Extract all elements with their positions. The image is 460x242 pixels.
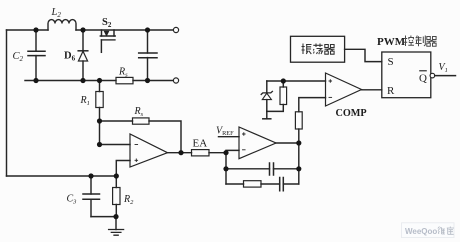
svg-text:R: R <box>387 85 395 97</box>
junction dot C3 top <box>88 173 93 178</box>
oscillator box <box>291 36 345 62</box>
wire EA output vertical <box>298 129 300 184</box>
junction dot R2 top <box>114 173 119 178</box>
junction dot EA minus node <box>223 150 228 155</box>
resistor R2 <box>113 176 120 217</box>
wire top rail right segment <box>76 29 173 31</box>
svg-text:S: S <box>388 56 394 68</box>
capacitor C2 <box>28 30 45 81</box>
capacitor feedback C <box>226 163 299 175</box>
resistor feedback R <box>244 181 262 187</box>
svg-text:Q: Q <box>419 72 427 84</box>
svg-text:D6: D6 <box>64 51 76 63</box>
wire resistor to COMP minus <box>299 98 326 112</box>
svg-text:PWM: PWM <box>377 36 406 48</box>
transistor S2 <box>100 30 115 52</box>
wire RC feedback row <box>226 183 299 185</box>
label PWM controller chinese <box>404 36 437 47</box>
svg-text:L2: L2 <box>51 7 62 19</box>
junction dot D6 top <box>80 27 85 32</box>
inverter bubble Qbar output <box>430 73 435 78</box>
junction dot EA output <box>296 140 301 145</box>
svg-text:R1: R1 <box>80 95 90 107</box>
junction dot R2 bottom <box>113 214 118 219</box>
comparator COMP <box>326 73 362 106</box>
resistor Rs <box>116 77 133 83</box>
wire node to op-amp2 minus input <box>226 150 239 152</box>
junction dot C2 bottom <box>33 78 38 83</box>
svg-text:S2: S2 <box>102 17 112 29</box>
wire C3 bottom <box>91 216 116 218</box>
watermark <box>402 223 455 238</box>
junction dot op-amp1 output <box>178 150 183 155</box>
op-amp U1 <box>130 134 168 167</box>
capacitor feedback C2 <box>280 178 284 191</box>
diode D6 <box>78 30 88 81</box>
svg-text:Rs: Rs <box>134 106 144 118</box>
wire oscillator to S input <box>345 49 382 61</box>
wire bottom power rail right <box>133 80 173 82</box>
terminal output top <box>173 27 178 32</box>
wire op-amp1 output to EA resistor <box>168 152 192 154</box>
svg-text:WeeQoo: WeeQoo <box>405 227 437 236</box>
output capacitor <box>139 30 157 81</box>
junction dot R1 bottom <box>97 118 102 123</box>
wire op-amp2 output <box>276 142 299 144</box>
wire op-amp1 plus input <box>116 161 130 177</box>
junction dot output cap bottom <box>145 78 150 83</box>
junction dot output cap top <box>145 27 150 32</box>
PWM controller box <box>382 52 431 98</box>
wire EA resistor to node <box>209 152 226 154</box>
resistor Rf <box>133 118 150 124</box>
wire COMP output to R input <box>362 89 382 91</box>
svg-text:V1: V1 <box>439 62 448 74</box>
junction dot op-amp1 minus <box>97 142 102 147</box>
wire left vertical <box>6 30 8 176</box>
ground <box>109 217 124 236</box>
svg-text:C2: C2 <box>13 51 24 63</box>
wire R1 to op-amp input <box>100 121 131 145</box>
wire feedback row <box>100 121 182 153</box>
resistor EA <box>192 150 210 156</box>
junction dot zener node <box>281 78 286 83</box>
zener diode <box>261 81 272 111</box>
resistor zener parallel <box>280 81 287 105</box>
wire zener bottom connector <box>267 105 284 112</box>
wire feedback node chain <box>225 153 227 184</box>
wire bottom signal rail <box>7 175 117 177</box>
label oscillator chinese <box>302 44 335 55</box>
resistor comp input <box>295 112 302 129</box>
wire top rail left segment <box>7 29 49 31</box>
inductor L2 <box>48 20 76 30</box>
svg-text:EA: EA <box>193 138 208 150</box>
wire Vref stub <box>219 136 240 138</box>
resistor R1 <box>96 81 103 122</box>
terminal output bottom <box>173 78 178 83</box>
svg-text:C3: C3 <box>67 194 78 206</box>
ground zener <box>263 111 271 118</box>
op-amp U2 EA <box>239 127 276 159</box>
junction dot C2 top <box>33 27 38 32</box>
junction dot EA cap row <box>223 166 228 171</box>
svg-text:VREF: VREF <box>216 126 234 138</box>
junction dot D6 bottom <box>80 78 85 83</box>
junction dot R1 top <box>97 78 102 83</box>
svg-text:COMP: COMP <box>336 108 367 119</box>
wire bottom power rail left <box>25 80 116 82</box>
capacitor C3 <box>83 176 100 217</box>
wire zener node to COMP plus <box>267 80 326 82</box>
svg-text:Rs: Rs <box>118 67 128 79</box>
junction dot EA output cap row <box>296 166 301 171</box>
svg-text:R2: R2 <box>123 194 134 206</box>
wire V1 output <box>435 75 456 77</box>
